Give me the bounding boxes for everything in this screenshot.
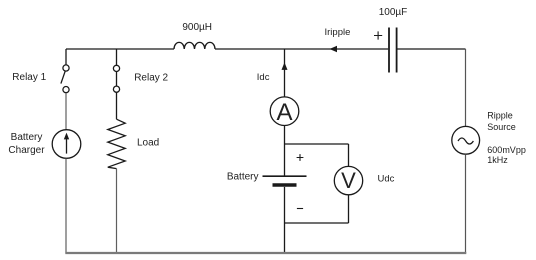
- wire voltmeter loop top: [285, 143, 349, 145]
- wire top rail right segment: [397, 48, 465, 50]
- battery minus mark: [297, 208, 303, 210]
- wire voltmeter loop right lower: [348, 195, 350, 223]
- current source arrow: [66, 138, 68, 154]
- battery B1 positive plate: [263, 175, 307, 177]
- svg-text:Charger: Charger: [8, 145, 45, 156]
- battery B1 negative plate: [273, 183, 297, 187]
- Idc arrowhead: [282, 62, 288, 70]
- wire bottom rail: [65, 252, 466, 254]
- svg-text:900µH: 900µH: [182, 22, 212, 33]
- svg-text:Battery: Battery: [227, 171, 259, 182]
- wire charger to bottom rail: [65, 158, 67, 253]
- wire right branch top: [465, 49, 467, 126]
- svg-text:1kHz: 1kHz: [487, 155, 508, 165]
- battery plus mark: [297, 154, 304, 161]
- capacitor C1 100µF plates: [389, 28, 397, 73]
- svg-text:V: V: [341, 168, 356, 193]
- relay Relay 2 closed link: [116, 72, 118, 86]
- capacitor plus mark: [374, 31, 382, 39]
- wire left branch top: [65, 49, 67, 65]
- svg-text:Idc: Idc: [257, 72, 270, 83]
- svg-text:Relay 1: Relay 1: [12, 72, 46, 83]
- wire top rail left segment: [66, 48, 174, 50]
- svg-text:Iripple: Iripple: [325, 27, 351, 38]
- wire voltmeter loop bottom: [285, 222, 349, 224]
- svg-text:Udc: Udc: [378, 174, 395, 185]
- Iripple arrowhead: [330, 46, 338, 52]
- wire relay1 to charger: [65, 93, 67, 130]
- svg-text:Source: Source: [487, 122, 516, 132]
- wire right branch bottom: [465, 154, 467, 253]
- svg-text:100µF: 100µF: [379, 7, 408, 18]
- ammeter A circle: [270, 97, 299, 126]
- resistor Load zigzag: [108, 119, 125, 168]
- svg-text:A: A: [276, 99, 292, 126]
- current source Battery Charger circle: [52, 130, 81, 159]
- svg-text:Battery: Battery: [11, 132, 43, 143]
- relay Relay 1 open blade: [61, 71, 65, 83]
- wire ammeter to battery: [284, 126, 286, 176]
- voltmeter V circle: [334, 166, 362, 194]
- wire voltmeter loop right upper: [348, 144, 350, 166]
- wire top rail middle segment: [215, 48, 388, 50]
- inductor L1 900µH: [174, 42, 215, 49]
- wire relay2 to load: [116, 92, 118, 119]
- ac source Ripple Source circle: [452, 126, 480, 154]
- wire middle branch top with Idc: [284, 49, 286, 97]
- wire relay2 branch top: [116, 49, 118, 65]
- relay Relay 1 switch contacts: [63, 65, 69, 71]
- svg-text:Load: Load: [137, 138, 159, 149]
- relay Relay 2 switch contacts: [113, 65, 119, 71]
- svg-text:Relay 2: Relay 2: [134, 73, 168, 84]
- wire load to bottom rail: [116, 169, 118, 253]
- svg-text:600mVpp: 600mVpp: [487, 145, 526, 155]
- ac source sine wave: [458, 138, 473, 144]
- svg-text:Ripple: Ripple: [487, 111, 513, 121]
- wire battery to bottom rail: [284, 187, 286, 253]
